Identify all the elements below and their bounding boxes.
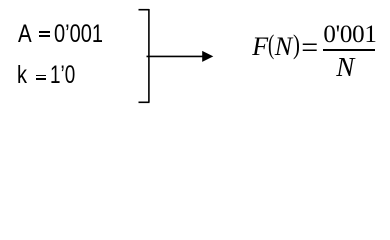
arrow shaft xyxy=(147,55,205,57)
italic N argument xyxy=(275,34,292,60)
equals of line 1 (two bars) xyxy=(39,31,50,33)
fraction bar xyxy=(323,49,375,51)
equals of line 2 (two bars) xyxy=(36,75,46,77)
fraction denominator N xyxy=(336,54,354,81)
close paren xyxy=(293,31,300,59)
label k = 1'0 xyxy=(17,63,27,88)
label A = 0'001 xyxy=(18,22,32,47)
fraction numerator 0'001 xyxy=(323,22,376,47)
bracket and arrow xyxy=(0,0,390,110)
formula F(N) italic F xyxy=(252,34,268,60)
arrow head xyxy=(202,51,213,62)
bracket vertical line xyxy=(148,9,150,102)
bracket top tick xyxy=(139,9,150,11)
open paren xyxy=(268,31,274,59)
bracket bottom tick xyxy=(139,101,150,103)
equals sign xyxy=(301,33,318,63)
